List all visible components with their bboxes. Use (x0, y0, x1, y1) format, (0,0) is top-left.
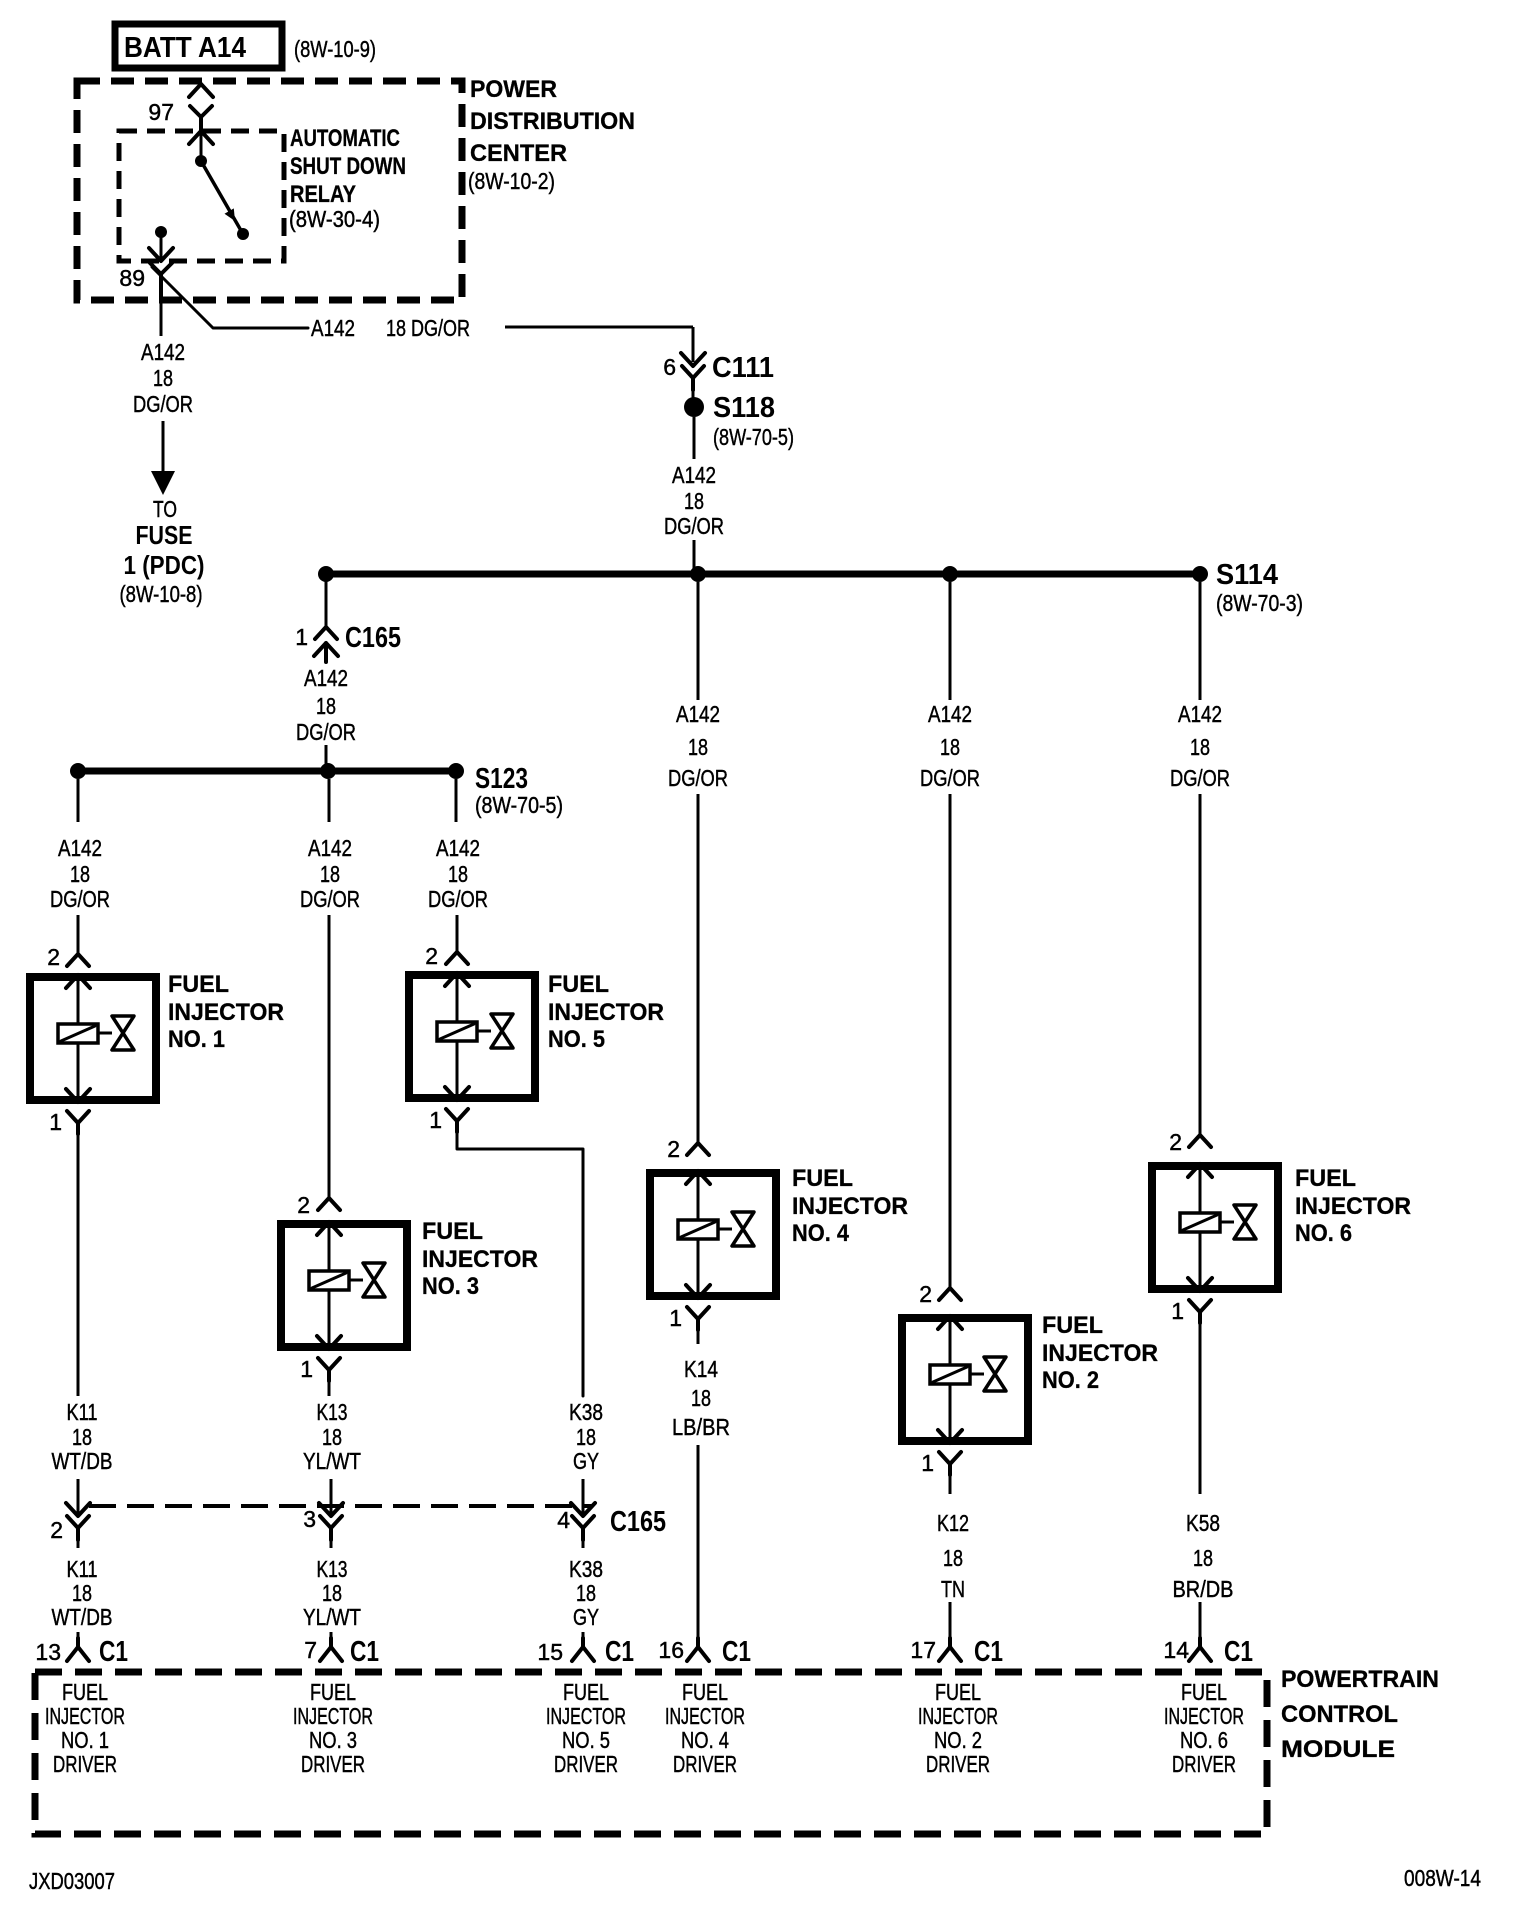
wire K38 to connector C165 cavity 4 (582, 1479, 585, 1514)
svg-text:NO. 4: NO. 4 (681, 1727, 729, 1753)
wire K38 from injector 5 with jog (457, 1132, 583, 1396)
svg-text:K11: K11 (67, 1399, 98, 1425)
svg-text:1: 1 (300, 1356, 313, 1382)
svg-text:INJECTOR: INJECTOR (792, 1193, 908, 1220)
svg-text:18: 18 (1190, 734, 1210, 760)
svg-text:(8W-10-8): (8W-10-8) (120, 581, 203, 607)
svg-text:FUEL: FUEL (1042, 1312, 1103, 1339)
svg-text:2: 2 (919, 1281, 932, 1307)
svg-text:2: 2 (1169, 1129, 1182, 1155)
wire A142 splice S114 to injector 6 (1199, 582, 1202, 1135)
svg-text:18: 18 (153, 365, 173, 391)
svg-text:K38: K38 (569, 1556, 603, 1582)
injector 4 pin 1 connector (669, 1305, 709, 1331)
wire K13 to PCM (330, 1632, 333, 1638)
junction at injector 4 column (690, 566, 706, 582)
wire label A142 18 DG/OR (injector 1 column) (50, 835, 110, 912)
svg-text:DG/OR: DG/OR (664, 513, 724, 539)
wire label A142 18 DG/OR (injector 6 column) (1170, 701, 1230, 791)
svg-text:18: 18 (320, 861, 340, 887)
svg-text:C1: C1 (974, 1636, 1003, 1668)
wire label K38 18 GY (569, 1399, 603, 1474)
relay pin 89 connector (119, 248, 173, 300)
svg-text:A142: A142 (311, 315, 355, 341)
wire label K13 18 YL/WT (303, 1399, 361, 1474)
wire A142 splice S123 to injector 1 (77, 779, 80, 954)
svg-text:(8W-70-3): (8W-70-3) (1216, 590, 1303, 616)
wire K13 to connector C165 cavity 3 (330, 1479, 333, 1514)
injector 2 pin 1 connector (921, 1450, 961, 1476)
connector C1 cavity 17 (910, 1636, 1003, 1668)
svg-text:2: 2 (50, 1517, 63, 1543)
connector C111 pin 6 (663, 352, 774, 390)
wire K13 from injector 3 (329, 1381, 331, 1396)
svg-text:GY: GY (573, 1604, 599, 1630)
svg-text:CENTER: CENTER (470, 140, 567, 167)
svg-text:BATT A14: BATT A14 (124, 32, 246, 64)
svg-text:DRIVER: DRIVER (926, 1751, 990, 1777)
connector C165 cavity 2 (50, 1503, 90, 1543)
svg-text:DG/OR: DG/OR (296, 719, 356, 745)
svg-text:K14: K14 (684, 1356, 718, 1382)
svg-text:K13: K13 (317, 1556, 348, 1582)
connector C165 cavity 4 (557, 1503, 666, 1540)
wire K58 to PCM (1199, 1602, 1202, 1638)
wire label A142 18 DG/OR (injector 4 column) (668, 701, 728, 791)
svg-text:NO. 6: NO. 6 (1180, 1727, 1228, 1753)
svg-text:FUEL: FUEL (1295, 1165, 1356, 1192)
svg-text:18: 18 (576, 1580, 596, 1606)
wire A142 branch from pin 89 to C111 (152, 267, 693, 362)
wire label K58 18 BR/DB (1173, 1510, 1234, 1602)
svg-text:RELAY: RELAY (290, 181, 356, 208)
svg-text:DRIVER: DRIVER (673, 1751, 737, 1777)
power distribution center box (77, 76, 635, 300)
svg-text:1: 1 (921, 1450, 934, 1476)
wire label K12 18 TN (937, 1510, 969, 1602)
svg-text:2: 2 (425, 943, 438, 969)
fuel injector no. 2 (902, 1312, 1158, 1443)
svg-text:FUSE: FUSE (136, 520, 193, 550)
wire label K38 18 GY below C165 (569, 1540, 603, 1630)
svg-text:LB/BR: LB/BR (672, 1414, 730, 1440)
svg-text:NO. 2: NO. 2 (934, 1727, 982, 1753)
svg-text:JXD03007: JXD03007 (29, 1868, 115, 1894)
svg-text:INJECTOR: INJECTOR (293, 1703, 373, 1729)
svg-text:1: 1 (1171, 1298, 1184, 1324)
svg-text:C165: C165 (345, 622, 401, 654)
svg-text:DG/OR: DG/OR (1170, 765, 1230, 791)
sheet number 008W-14 (1404, 1865, 1481, 1891)
injector 5 pin 1 connector (429, 1107, 468, 1133)
svg-text:AUTOMATIC: AUTOMATIC (290, 125, 400, 152)
PCM pin label fuel injector no. 6 driver (1164, 1679, 1244, 1777)
wire A142 below S118 (693, 417, 696, 572)
svg-text:C111: C111 (712, 352, 774, 384)
svg-text:INJECTOR: INJECTOR (45, 1703, 125, 1729)
svg-text:FUEL: FUEL (935, 1679, 981, 1705)
relay pin 97 connector (148, 84, 213, 161)
svg-text:DG/OR: DG/OR (668, 765, 728, 791)
svg-text:18: 18 (691, 1385, 711, 1411)
svg-text:K13: K13 (317, 1399, 348, 1425)
svg-text:18: 18 (70, 861, 90, 887)
injector 6 pin 2 connector (1169, 1129, 1211, 1155)
injector 4 pin 2 connector (667, 1136, 709, 1162)
svg-text:13: 13 (35, 1639, 61, 1665)
svg-text:18: 18 (448, 861, 468, 887)
svg-text:INJECTOR: INJECTOR (546, 1703, 626, 1729)
splice S118 (684, 390, 794, 450)
wire K14 to PCM (697, 1445, 700, 1638)
svg-text:A142: A142 (436, 835, 480, 861)
svg-text:INJECTOR: INJECTOR (422, 1246, 538, 1273)
svg-text:97: 97 (148, 99, 174, 125)
svg-text:FUEL: FUEL (168, 971, 229, 998)
svg-text:INJECTOR: INJECTOR (1042, 1340, 1158, 1367)
svg-text:K11: K11 (67, 1556, 98, 1582)
wire K38 to PCM (582, 1632, 585, 1638)
relay switch arm (201, 161, 249, 240)
svg-text:(8W-30-4): (8W-30-4) (289, 206, 380, 232)
connector C1 cavity 15 (537, 1636, 634, 1668)
svg-text:YL/WT: YL/WT (303, 1448, 361, 1474)
svg-text:18: 18 (576, 1424, 596, 1450)
svg-text:NO. 4: NO. 4 (792, 1220, 850, 1247)
main bus wire A142 (322, 571, 1204, 578)
svg-text:FUEL: FUEL (1181, 1679, 1227, 1705)
destination label TO FUSE 1 (PDC) (120, 496, 205, 607)
svg-text:1: 1 (49, 1109, 62, 1135)
svg-text:TO: TO (153, 496, 177, 522)
PCM pin label fuel injector no. 1 driver (45, 1679, 125, 1777)
wire A142 splice S123 to injector 3 (328, 779, 331, 1198)
PCM pin label fuel injector no. 2 driver (918, 1679, 998, 1777)
PCM pin label fuel injector no. 3 driver (293, 1679, 373, 1777)
fuel injector no. 4 (650, 1165, 908, 1298)
svg-text:BR/DB: BR/DB (1173, 1576, 1234, 1602)
wire label A142 18 DG/OR (injector 2 column) (920, 701, 980, 791)
svg-text:NO. 5: NO. 5 (548, 1026, 605, 1053)
svg-text:INJECTOR: INJECTOR (1164, 1703, 1244, 1729)
svg-text:(8W-70-5): (8W-70-5) (713, 424, 794, 450)
svg-text:1: 1 (295, 624, 308, 650)
svg-text:A142: A142 (676, 701, 720, 727)
svg-text:18: 18 (1193, 1545, 1213, 1571)
svg-text:18: 18 (316, 693, 336, 719)
svg-text:K38: K38 (569, 1399, 603, 1425)
injector 6 pin 1 connector (1171, 1298, 1211, 1324)
svg-text:NO. 3: NO. 3 (422, 1273, 479, 1300)
svg-text:A142: A142 (672, 462, 716, 488)
svg-text:S118: S118 (713, 392, 775, 424)
splice S114 (1192, 559, 1303, 616)
wire K11 to PCM (77, 1632, 80, 1638)
wire K14 from injector 4 (697, 1330, 700, 1344)
wire label A142 18 DG/OR (injector 5 column) (428, 835, 488, 912)
svg-text:1: 1 (669, 1305, 682, 1331)
wire A142 from pin 89 down (160, 274, 163, 336)
wire K12 to PCM (949, 1602, 952, 1638)
svg-text:SHUT DOWN: SHUT DOWN (290, 153, 406, 180)
wire A142 bus to injector 2 (949, 582, 952, 1288)
svg-text:INJECTOR: INJECTOR (665, 1703, 745, 1729)
svg-text:FUEL: FUEL (62, 1679, 108, 1705)
wire label A142 18 DG/OR (injector 3 column) (300, 835, 360, 912)
svg-text:S123: S123 (475, 763, 528, 795)
svg-text:NO. 1: NO. 1 (61, 1727, 109, 1753)
connector C1 cavity 16 (658, 1636, 751, 1668)
wire label A142 18 DG/OR (S118 column) (664, 462, 724, 539)
svg-text:C1: C1 (605, 1636, 634, 1668)
svg-text:NO. 2: NO. 2 (1042, 1367, 1099, 1394)
svg-text:TN: TN (941, 1576, 965, 1602)
svg-text:FUEL: FUEL (422, 1218, 483, 1245)
injector 2 pin 2 connector (919, 1281, 961, 1307)
svg-text:4: 4 (557, 1507, 570, 1533)
svg-text:A142: A142 (1178, 701, 1222, 727)
svg-text:DRIVER: DRIVER (554, 1751, 618, 1777)
svg-text:POWER: POWER (470, 76, 557, 103)
relay switch contact to pin 89 (155, 226, 167, 259)
fuel injector no. 5 (409, 971, 664, 1100)
svg-text:A142: A142 (141, 339, 185, 365)
connector C1 cavity 7 (304, 1636, 379, 1668)
svg-text:(8W-70-5): (8W-70-5) (475, 792, 563, 818)
wire K11 from injector 1 (77, 1134, 80, 1396)
wire label A142 18 DG/OR (left column) (133, 339, 193, 417)
svg-text:18: 18 (322, 1580, 342, 1606)
fuel injector no. 3 (281, 1218, 538, 1349)
svg-text:DG/OR: DG/OR (133, 391, 193, 417)
drawing number JXD03007 (29, 1868, 115, 1894)
svg-text:1: 1 (429, 1107, 442, 1133)
svg-text:18: 18 (72, 1580, 92, 1606)
wire A142 splice S123 to injector 5 (456, 779, 457, 952)
svg-text:DRIVER: DRIVER (53, 1751, 117, 1777)
powertrain control module box (35, 1666, 1439, 1834)
svg-text:1 (PDC): 1 (PDC) (124, 550, 205, 580)
svg-text:INJECTOR: INJECTOR (1295, 1193, 1411, 1220)
svg-text:18: 18 (72, 1424, 92, 1450)
PCM pin label fuel injector no. 5 driver (546, 1679, 626, 1777)
connector C165 cavity 3 (303, 1503, 343, 1540)
PCM pin label fuel injector no. 4 driver (665, 1679, 745, 1777)
svg-text:2: 2 (47, 944, 60, 970)
svg-text:18: 18 (322, 1424, 342, 1450)
svg-text:A142: A142 (928, 701, 972, 727)
wire K58 from injector 6 (1199, 1323, 1202, 1494)
svg-text:INJECTOR: INJECTOR (548, 999, 664, 1026)
connector C1 cavity 14 (1163, 1636, 1253, 1668)
connector C165 dashed harness line (89, 1504, 592, 1508)
junction at injector 1 column (70, 763, 86, 779)
svg-text:C1: C1 (1224, 1636, 1253, 1668)
wire label K11 18 WT/DB below C165 (52, 1540, 113, 1630)
svg-text:18 DG/OR: 18 DG/OR (386, 315, 470, 341)
connector C1 cavity 13 (35, 1636, 128, 1668)
junction at C165 column (318, 566, 334, 582)
wire label A142 18 DG/OR (C165 column) (296, 665, 356, 745)
svg-text:DG/OR: DG/OR (920, 765, 980, 791)
svg-text:A142: A142 (304, 665, 348, 691)
svg-text:POWERTRAIN: POWERTRAIN (1281, 1666, 1439, 1693)
reference (8W-10-9) (294, 36, 376, 62)
svg-text:18: 18 (943, 1545, 963, 1571)
svg-text:C1: C1 (722, 1636, 751, 1668)
svg-text:FUEL: FUEL (792, 1165, 853, 1192)
svg-text:C1: C1 (99, 1636, 128, 1668)
svg-text:K58: K58 (1186, 1510, 1220, 1536)
svg-text:DRIVER: DRIVER (301, 1751, 365, 1777)
fuel injector no. 1 (30, 971, 284, 1102)
wire label K14 18 LB/BR (672, 1356, 730, 1440)
svg-text:18: 18 (688, 734, 708, 760)
connector C165 pin 1 (295, 578, 401, 662)
svg-text:DG/OR: DG/OR (428, 886, 488, 912)
svg-text:DISTRIBUTION: DISTRIBUTION (470, 108, 635, 135)
injector 3 pin 1 connector (300, 1356, 340, 1382)
svg-text:A142: A142 (58, 835, 102, 861)
svg-text:14: 14 (1163, 1637, 1189, 1663)
svg-text:INJECTOR: INJECTOR (168, 999, 284, 1026)
svg-text:15: 15 (537, 1639, 563, 1665)
junction at injector 2 column (942, 566, 958, 582)
wire C165 to splice S123 (325, 745, 328, 767)
injector 1 pin 1 connector (49, 1109, 89, 1135)
svg-text:DG/OR: DG/OR (300, 886, 360, 912)
bus wire A142 at S123 (78, 768, 456, 775)
wire K12 from injector 2 (949, 1475, 952, 1494)
svg-text:K12: K12 (937, 1510, 969, 1536)
wire label A142 18 DG/OR (horizontal run) (311, 315, 470, 341)
svg-text:(8W-10-9): (8W-10-9) (294, 36, 376, 62)
svg-text:C1: C1 (350, 1636, 379, 1668)
svg-text:WT/DB: WT/DB (52, 1448, 113, 1474)
automatic shut down relay box (119, 125, 406, 261)
battery feed fuse box BATT A14 (115, 24, 282, 68)
svg-text:A142: A142 (308, 835, 352, 861)
svg-text:89: 89 (119, 265, 145, 291)
injector 3 pin 2 connector (297, 1192, 340, 1218)
svg-text:2: 2 (667, 1136, 680, 1162)
svg-text:CONTROL: CONTROL (1281, 1701, 1398, 1728)
wire label K13 18 YL/WT below C165 (303, 1540, 361, 1630)
injector 5 pin 2 connector (425, 943, 468, 969)
svg-text:GY: GY (573, 1448, 599, 1474)
fuel injector no. 6 (1152, 1164, 1411, 1291)
svg-text:FUEL: FUEL (548, 971, 609, 998)
svg-text:008W-14: 008W-14 (1404, 1865, 1481, 1891)
svg-text:6: 6 (663, 354, 676, 380)
svg-text:16: 16 (658, 1637, 684, 1663)
svg-text:INJECTOR: INJECTOR (918, 1703, 998, 1729)
splice S123 (448, 763, 563, 818)
svg-text:S114: S114 (1216, 559, 1278, 591)
svg-text:18: 18 (684, 488, 704, 514)
wire A142 bus to injector 4 (697, 582, 700, 1143)
injector 1 pin 2 connector (47, 944, 89, 970)
wire to fuse 1 with arrow (151, 421, 175, 495)
wire label K11 18 WT/DB (52, 1399, 113, 1474)
svg-text:2: 2 (297, 1192, 310, 1218)
wire K11 to connector C165 cavity 2 (77, 1479, 80, 1514)
relay switch contact from pin 97 (195, 155, 207, 167)
svg-text:DRIVER: DRIVER (1172, 1751, 1236, 1777)
svg-text:17: 17 (910, 1637, 936, 1663)
svg-text:NO. 3: NO. 3 (309, 1727, 357, 1753)
svg-text:C165: C165 (610, 1506, 666, 1538)
svg-text:WT/DB: WT/DB (52, 1604, 113, 1630)
svg-text:3: 3 (303, 1506, 316, 1532)
svg-text:(8W-10-2): (8W-10-2) (468, 168, 555, 194)
svg-text:FUEL: FUEL (682, 1679, 728, 1705)
svg-text:NO. 1: NO. 1 (168, 1026, 225, 1053)
svg-text:FUEL: FUEL (563, 1679, 609, 1705)
svg-text:NO. 6: NO. 6 (1295, 1220, 1352, 1247)
svg-text:DG/OR: DG/OR (50, 886, 110, 912)
svg-text:NO. 5: NO. 5 (562, 1727, 610, 1753)
junction at injector 3 column (320, 763, 336, 779)
svg-text:MODULE: MODULE (1281, 1736, 1395, 1763)
svg-text:7: 7 (304, 1637, 317, 1663)
svg-text:18: 18 (940, 734, 960, 760)
svg-text:FUEL: FUEL (310, 1679, 356, 1705)
svg-text:YL/WT: YL/WT (303, 1604, 361, 1630)
